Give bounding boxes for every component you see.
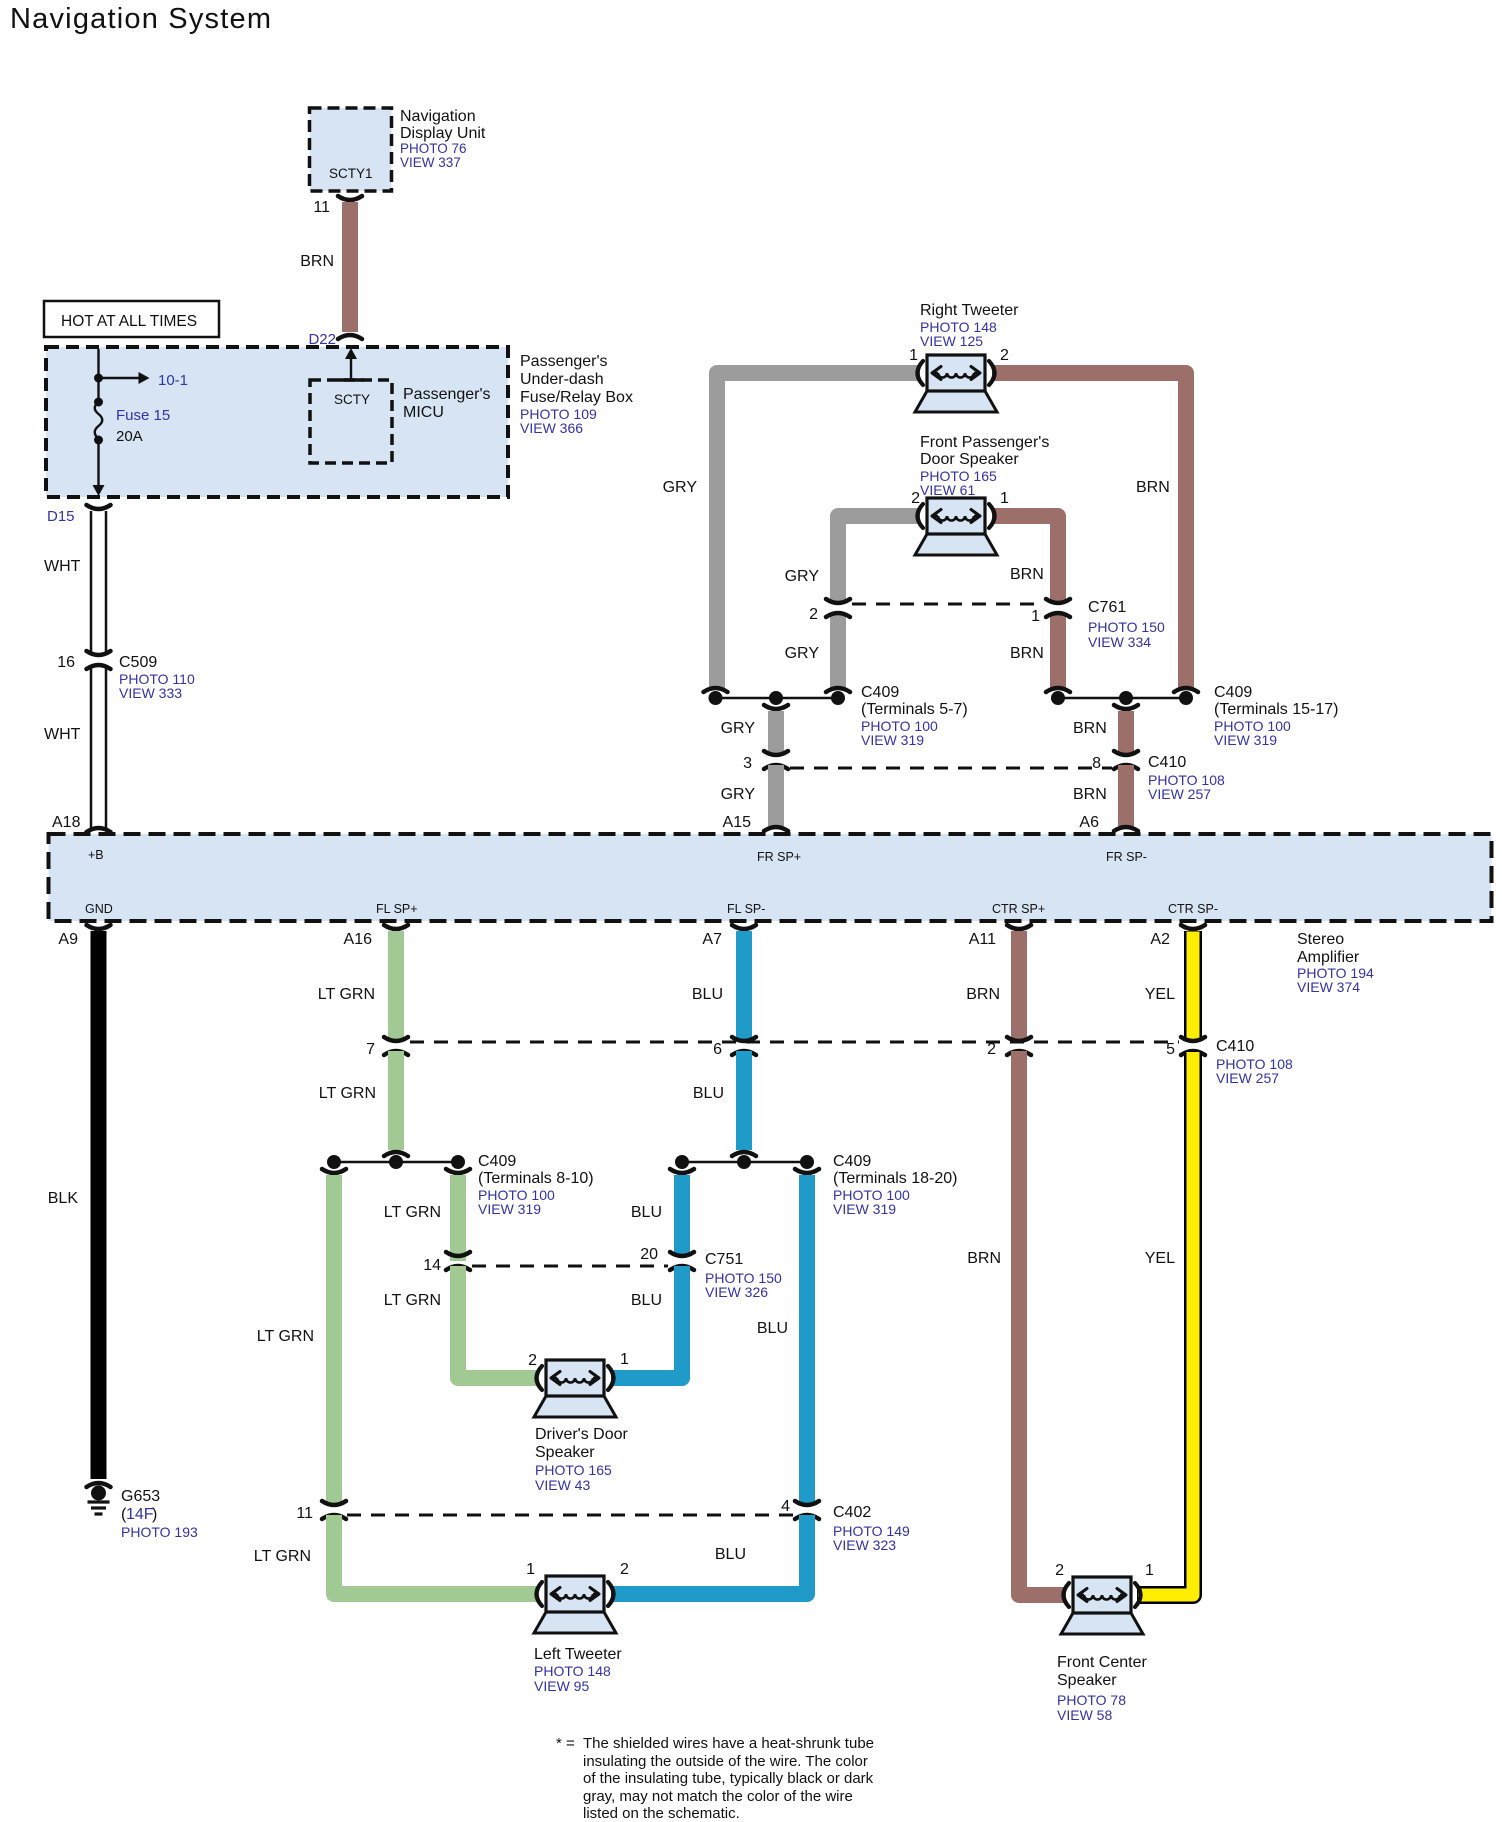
- svg-text:11: 11: [313, 199, 330, 216]
- svg-text:4: 4: [781, 1498, 790, 1515]
- junction C409 terminals 8-10: [328, 1161, 464, 1164]
- Driver's Door Speaker U3: [534, 1396, 616, 1417]
- feed line in fuse box: [97, 349, 99, 402]
- fuse Fuse 15 20A: [94, 398, 103, 407]
- wire WHT lower segment: [90, 665, 93, 828]
- svg-text:BLU: BLU: [693, 1085, 724, 1102]
- wire BRN A11 upper: [1011, 931, 1027, 1041]
- svg-text:VIEW 58: VIEW 58: [1057, 1707, 1112, 1723]
- svg-text:A2: A2: [1150, 931, 1170, 948]
- svg-text:GRY: GRY: [663, 479, 698, 496]
- connector C751 dashed link (14-20): [472, 1265, 668, 1268]
- svg-text:Navigation: Navigation: [400, 108, 476, 125]
- wire GRY right tweeter pin1: [717, 373, 920, 690]
- svg-text:BLU: BLU: [631, 1292, 662, 1309]
- svg-text:C410: C410: [1148, 754, 1186, 771]
- svg-text:2: 2: [809, 606, 818, 623]
- svg-text:VIEW 323: VIEW 323: [833, 1537, 896, 1553]
- connector C410 pin 6: [732, 1037, 756, 1041]
- svg-text:VIEW 326: VIEW 326: [705, 1284, 768, 1300]
- svg-text:8: 8: [1092, 755, 1101, 772]
- svg-text:C751: C751: [705, 1251, 743, 1268]
- wire BRN display-unit to D22: [342, 202, 358, 332]
- wire BRN to center speaker: [1019, 1051, 1066, 1595]
- svg-text:A11: A11: [969, 931, 996, 948]
- svg-text:1: 1: [1000, 490, 1009, 507]
- arrow SCTY to D22: [350, 359, 352, 380]
- svg-text:BLU: BLU: [631, 1204, 662, 1221]
- arrow to D15: [97, 440, 99, 485]
- svg-text:LT GRN: LT GRN: [319, 1085, 376, 1102]
- connector C751 pin 14: [446, 1252, 470, 1256]
- wire LT GRN to driver speaker: [450, 1175, 466, 1261]
- svg-text:GRY: GRY: [721, 720, 756, 737]
- svg-text:): ): [152, 1506, 157, 1523]
- svg-text:WHT: WHT: [44, 558, 81, 575]
- svg-text:PHOTO 150: PHOTO 150: [1088, 619, 1165, 635]
- svg-text:Right Tweeter: Right Tweeter: [920, 302, 1019, 319]
- connector C410 pin 3: [764, 751, 788, 755]
- pin 11 connector: [338, 196, 362, 200]
- svg-text:Driver's Door: Driver's Door: [535, 1426, 629, 1443]
- Right Tweeter speaker U1: [915, 391, 997, 412]
- svg-text:SCTY1: SCTY1: [329, 166, 373, 181]
- svg-text:SCTY: SCTY: [334, 392, 370, 407]
- svg-text:PHOTO 78: PHOTO 78: [1057, 1692, 1126, 1708]
- svg-text:A9: A9: [58, 931, 78, 948]
- svg-text:20: 20: [640, 1246, 658, 1263]
- svg-text:Front Passenger's: Front Passenger's: [920, 434, 1049, 451]
- svg-text:VIEW 319: VIEW 319: [833, 1201, 896, 1217]
- svg-text:20A: 20A: [116, 428, 143, 445]
- svg-text:6: 6: [713, 1041, 722, 1058]
- wire BLU right long: [799, 1175, 815, 1505]
- svg-text:GRY: GRY: [785, 645, 820, 662]
- svg-text:GRY: GRY: [721, 786, 756, 803]
- svg-text:* =: * =: [556, 1735, 575, 1752]
- svg-text:The shielded wires have a heat: The shielded wires have a heat-shrunk tu…: [583, 1735, 874, 1752]
- connector C509 pin 16: [87, 651, 111, 655]
- connector C410 pins 3-8 dashed link: [790, 767, 1112, 770]
- connector C761: [826, 599, 850, 603]
- svg-text:FR SP+: FR SP+: [757, 850, 801, 864]
- svg-text:HOT AT ALL TIMES: HOT AT ALL TIMES: [61, 313, 197, 330]
- wire YEL A2 upper outline: [1184, 931, 1202, 1041]
- svg-text:(Terminals 15-17): (Terminals 15-17): [1214, 701, 1338, 718]
- HOT AT ALL TIMES box: [44, 301, 219, 337]
- svg-text:2: 2: [911, 490, 920, 507]
- svg-text:Speaker: Speaker: [1057, 1672, 1117, 1689]
- Front Passenger's Door Speaker U2: [915, 534, 997, 555]
- svg-text:14F: 14F: [126, 1506, 154, 1523]
- connector C402 pin 11: [322, 1501, 346, 1505]
- svg-text:LT GRN: LT GRN: [384, 1292, 441, 1309]
- svg-text:1: 1: [526, 1561, 535, 1578]
- svg-text:C409: C409: [1214, 684, 1252, 701]
- svg-text:gray, may not match the color: gray, may not match the color of the wir…: [583, 1788, 853, 1805]
- svg-text:LT GRN: LT GRN: [257, 1328, 314, 1345]
- wire LT GRN A16 upper: [388, 931, 404, 1041]
- svg-text:WHT: WHT: [44, 726, 81, 743]
- svg-text:C409: C409: [861, 684, 899, 701]
- svg-text:BLK: BLK: [48, 1190, 79, 1207]
- junction C409 terminals 15-17: [1052, 697, 1192, 700]
- wire BLU to junction: [736, 1051, 752, 1150]
- svg-text:G653: G653: [121, 1488, 160, 1505]
- svg-text:BLU: BLU: [715, 1546, 746, 1563]
- svg-text:Navigation System: Navigation System: [10, 3, 272, 35]
- wire BLU to C751: [674, 1175, 690, 1256]
- svg-text:CTR SP-: CTR SP-: [1168, 902, 1218, 916]
- svg-text:C409: C409: [478, 1153, 516, 1170]
- ground G653: [87, 1483, 111, 1487]
- connector C402 dashed link (11-4): [347, 1514, 793, 1517]
- svg-text:Passenger's: Passenger's: [520, 353, 608, 370]
- svg-text:VIEW 337: VIEW 337: [400, 155, 461, 170]
- svg-text:C509: C509: [119, 654, 157, 671]
- svg-text:PHOTO 193: PHOTO 193: [121, 1524, 198, 1540]
- svg-text:A6: A6: [1079, 814, 1099, 831]
- wire BLU to left tweeter: [611, 1515, 807, 1594]
- svg-text:BRN: BRN: [1010, 566, 1044, 583]
- svg-text:Left Tweeter: Left Tweeter: [534, 1646, 622, 1663]
- svg-text:BRN: BRN: [300, 253, 334, 270]
- connector C410 pins 7-6-2-5 dashed link: [410, 1041, 1179, 1044]
- connector C402 pin 4: [795, 1501, 819, 1505]
- svg-text:VIEW 334: VIEW 334: [1088, 634, 1151, 650]
- svg-text:BLU: BLU: [692, 986, 723, 1003]
- svg-text:FR SP-: FR SP-: [1106, 850, 1147, 864]
- wire BLU A7 upper: [736, 931, 752, 1041]
- svg-text:VIEW 333: VIEW 333: [119, 685, 182, 701]
- wire LT GRN to left tweeter: [334, 1515, 539, 1594]
- svg-text:VIEW 125: VIEW 125: [920, 333, 983, 349]
- svg-text:+B: +B: [88, 848, 104, 862]
- svg-text:A15: A15: [723, 814, 752, 831]
- svg-text:C761: C761: [1088, 599, 1126, 616]
- svg-text:GND: GND: [85, 902, 113, 916]
- branch arrow to 10-1: [94, 374, 103, 383]
- wire BLK A9 to ground: [91, 931, 107, 1479]
- wire GRY door speaker pin2 upper: [838, 516, 920, 603]
- wire YEL to center speaker outline: [1137, 1051, 1193, 1595]
- svg-text:2: 2: [1055, 1562, 1064, 1579]
- svg-text:1: 1: [909, 347, 918, 364]
- svg-text:1: 1: [620, 1351, 629, 1368]
- svg-text:Stereo: Stereo: [1297, 931, 1344, 948]
- svg-text:Fuse/Relay Box: Fuse/Relay Box: [520, 389, 633, 406]
- svg-text:Speaker: Speaker: [535, 1444, 595, 1461]
- svg-text:VIEW 319: VIEW 319: [478, 1201, 541, 1217]
- wire BRN door speaker lower: [1050, 613, 1066, 690]
- svg-text:VIEW 319: VIEW 319: [1214, 732, 1277, 748]
- svg-text:10-1: 10-1: [158, 372, 188, 389]
- node D22: [338, 335, 362, 339]
- svg-text:VIEW 43: VIEW 43: [535, 1477, 590, 1493]
- svg-text:VIEW 374: VIEW 374: [1297, 979, 1360, 995]
- svg-text:(Terminals 8-10): (Terminals 8-10): [478, 1170, 594, 1187]
- Front Center Speaker U5: [1061, 1613, 1143, 1634]
- svg-text:LT GRN: LT GRN: [318, 986, 375, 1003]
- connector C410 pin 8: [1114, 751, 1138, 755]
- svg-text:YEL: YEL: [1145, 986, 1175, 1003]
- svg-text:C410: C410: [1216, 1038, 1254, 1055]
- svg-text:A7: A7: [702, 931, 722, 948]
- svg-text:2: 2: [528, 1352, 537, 1369]
- svg-text:D15: D15: [47, 508, 75, 525]
- wire BLU C751 to driver speaker: [611, 1266, 682, 1378]
- connector C751 pin 20: [670, 1252, 694, 1256]
- svg-text:LT GRN: LT GRN: [254, 1548, 311, 1565]
- svg-text:A18: A18: [52, 814, 81, 831]
- wire YEL A2 upper: [1187, 932, 1200, 1041]
- svg-text:PHOTO 165: PHOTO 165: [535, 1462, 612, 1478]
- junction C409 terminals 5-7: [710, 697, 844, 700]
- svg-text:VIEW 61: VIEW 61: [920, 482, 975, 498]
- svg-text:7: 7: [366, 1041, 375, 1058]
- Passenger's MICU box SCTY: [310, 380, 392, 463]
- wire BRN junction to A6 upper: [1118, 711, 1134, 755]
- svg-text:YEL: YEL: [1145, 1250, 1175, 1267]
- svg-text:FL SP+: FL SP+: [376, 902, 418, 916]
- junction C409 terminals 18-20: [676, 1161, 813, 1164]
- svg-text:Front Center: Front Center: [1057, 1654, 1147, 1671]
- svg-text:VIEW 95: VIEW 95: [534, 1678, 589, 1694]
- svg-text:C409: C409: [833, 1153, 871, 1170]
- svg-text:Amplifier: Amplifier: [1297, 949, 1360, 966]
- svg-text:PHOTO 76: PHOTO 76: [400, 141, 467, 156]
- svg-text:BRN: BRN: [1136, 479, 1170, 496]
- svg-text:(Terminals 18-20): (Terminals 18-20): [833, 1170, 957, 1187]
- svg-text:VIEW 257: VIEW 257: [1216, 1070, 1279, 1086]
- svg-text:VIEW 319: VIEW 319: [861, 732, 924, 748]
- svg-text:C402: C402: [833, 1504, 871, 1521]
- svg-text:BRN: BRN: [1010, 645, 1044, 662]
- Passenger's Under-dash Fuse/Relay Box: [46, 347, 508, 497]
- svg-text:VIEW 366: VIEW 366: [520, 420, 583, 436]
- svg-text:PHOTO 148: PHOTO 148: [534, 1663, 611, 1679]
- wire YEL to center speaker: [1138, 1052, 1193, 1595]
- svg-text:A16: A16: [344, 931, 373, 948]
- wire LT GRN to junction: [388, 1051, 404, 1150]
- wire WHT upper segment: [90, 511, 93, 655]
- Stereo Amplifier connector band: [49, 834, 1492, 921]
- svg-text:16: 16: [57, 654, 75, 671]
- svg-text:3: 3: [743, 755, 752, 772]
- Navigation Display Unit box SCTY1: [310, 108, 392, 191]
- svg-text:LT GRN: LT GRN: [384, 1204, 441, 1221]
- Left Tweeter U4: [534, 1612, 616, 1633]
- wire LT GRN left long upper: [326, 1175, 342, 1505]
- svg-text:11: 11: [296, 1505, 313, 1522]
- wire BRN door speaker pin1 upper: [992, 516, 1058, 603]
- svg-text:Passenger's: Passenger's: [403, 386, 491, 403]
- svg-text:BLU: BLU: [757, 1320, 788, 1337]
- svg-text:Door Speaker: Door Speaker: [920, 451, 1019, 468]
- svg-text:GRY: GRY: [785, 568, 820, 585]
- svg-text:14: 14: [423, 1257, 441, 1274]
- svg-text:VIEW 257: VIEW 257: [1148, 786, 1211, 802]
- svg-text:1: 1: [1031, 608, 1040, 625]
- wire BRN to band A6: [1118, 765, 1134, 826]
- svg-text:BRN: BRN: [1073, 786, 1107, 803]
- svg-text:1: 1: [1145, 1562, 1154, 1579]
- svg-text:BRN: BRN: [967, 1250, 1001, 1267]
- wire GRY to band A15: [768, 765, 784, 826]
- wire GRY door speaker lower: [830, 613, 846, 690]
- svg-text:(Terminals 5-7): (Terminals 5-7): [861, 701, 968, 718]
- svg-text:Display Unit: Display Unit: [400, 125, 486, 142]
- svg-text:of the insulating tube, typica: of the insulating tube, typically black …: [583, 1770, 874, 1787]
- svg-text:2: 2: [1000, 347, 1009, 364]
- svg-text:5: 5: [1166, 1041, 1175, 1058]
- wire GRY junction to A15 upper: [768, 711, 784, 755]
- wire LT GRN C751 to driver speaker: [458, 1266, 539, 1378]
- svg-text:2: 2: [987, 1041, 996, 1058]
- connector C410 pin 7: [384, 1037, 408, 1041]
- svg-text:BRN: BRN: [1073, 720, 1107, 737]
- svg-text:Under-dash: Under-dash: [520, 371, 604, 388]
- svg-text:2: 2: [620, 1561, 629, 1578]
- svg-text:FL SP-: FL SP-: [727, 902, 765, 916]
- svg-text:CTR SP+: CTR SP+: [992, 902, 1045, 916]
- connector C410 pin 2: [1007, 1037, 1031, 1041]
- connector C410 pin 5: [1181, 1037, 1205, 1041]
- svg-text:Fuse 15: Fuse 15: [116, 407, 170, 424]
- svg-text:listed on the schematic.: listed on the schematic.: [583, 1805, 740, 1822]
- connector C761 dashed link: [852, 603, 1044, 606]
- svg-text:BRN: BRN: [966, 986, 1000, 1003]
- wire BRN right tweeter pin2: [992, 373, 1186, 690]
- svg-text:insulating the outside of the: insulating the outside of the wire. The …: [583, 1753, 868, 1770]
- svg-text:MICU: MICU: [403, 404, 444, 421]
